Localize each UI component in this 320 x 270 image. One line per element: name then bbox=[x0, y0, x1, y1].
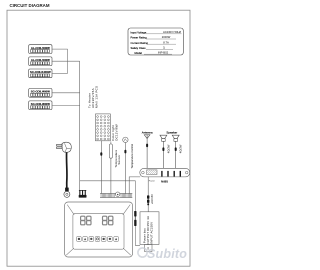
display digits 88 88 bbox=[81, 216, 113, 225]
main AC bus wire bbox=[79, 61, 81, 190]
svg-text:NiΦ5: NiΦ5 bbox=[161, 180, 168, 184]
svg-text:SC-COIL/400W: SC-COIL/400W bbox=[31, 90, 50, 94]
antenna wire bead bbox=[146, 144, 148, 148]
tie bus vertical J1-J3 bbox=[67, 49, 69, 73]
temperature sensor wire bbox=[110, 158, 112, 193]
button icons bbox=[78, 238, 117, 240]
button row bbox=[77, 237, 119, 242]
svg-text:Power: Power bbox=[149, 180, 155, 183]
cord connector plug end bbox=[64, 188, 70, 198]
temperature control wire bead bbox=[124, 150, 126, 154]
buzzer on PCB bbox=[116, 192, 120, 196]
label temperature sensor bbox=[114, 149, 121, 167]
svg-text:Model: Model bbox=[135, 51, 143, 55]
heater connector block J3 bbox=[29, 69, 52, 78]
svg-text:Subito: Subito bbox=[147, 247, 187, 261]
wire J4 to main bus bbox=[52, 92, 80, 94]
label 4ohm 3W SP2 bbox=[179, 144, 183, 153]
svg-text:Temperature Control: Temperature Control bbox=[130, 144, 134, 169]
svg-text:4Ω/3W: 4Ω/3W bbox=[166, 144, 170, 153]
svg-text:Input Voltage: Input Voltage bbox=[131, 30, 147, 34]
label 4ohm 3W SP1 bbox=[166, 144, 170, 153]
power box U2 bbox=[140, 212, 159, 252]
antenna ANT1 bbox=[144, 135, 150, 169]
bezel corner slant BL bbox=[66, 248, 74, 255]
svg-text:SC-COIL/1400W: SC-COIL/1400W bbox=[30, 70, 51, 74]
color light wire bbox=[100, 141, 102, 194]
temperature control ST1 bbox=[123, 137, 128, 142]
svg-text:Power Rating: Power Rating bbox=[131, 36, 148, 40]
bezel corner slant TR bbox=[123, 205, 130, 215]
control panel front face bbox=[73, 214, 124, 250]
heater connector block J1 bbox=[29, 45, 52, 54]
svg-text:DC12V/8W: DC12V/8W bbox=[115, 124, 119, 141]
svg-text:2000W: 2000W bbox=[162, 35, 171, 39]
heater connector block J5 bbox=[29, 101, 52, 110]
wire J3 to tie bus bbox=[52, 72, 68, 74]
svg-text:8.7A: 8.7A bbox=[163, 40, 169, 44]
fuse F1 bbox=[134, 211, 136, 217]
svg-text:MAX 13A PCS: MAX 13A PCS bbox=[94, 86, 98, 108]
speaker SP2 bbox=[172, 135, 179, 168]
svg-text:INP-B02: INP-B02 bbox=[158, 50, 169, 54]
speaker SP2 wire bead bbox=[175, 147, 177, 151]
mains plug P1 bbox=[56, 142, 71, 152]
speaker SP1 wire bead bbox=[162, 147, 164, 151]
svg-text:Speaker: Speaker bbox=[166, 131, 177, 135]
heater connector block J4 bbox=[29, 89, 52, 98]
svg-text:SC-COIL/300W: SC-COIL/300W bbox=[31, 102, 50, 106]
label temperature control bbox=[130, 144, 134, 169]
bezel corner slant TL bbox=[67, 205, 74, 215]
heater connector block J2 bbox=[29, 57, 52, 66]
watermark Subito bbox=[138, 247, 187, 261]
spec table bbox=[128, 28, 183, 55]
wire J1 to tie bus bbox=[52, 48, 68, 50]
svg-text:4Ω/3W: 4Ω/3W bbox=[179, 144, 183, 153]
svg-text:AL-COIL/100W: AL-COIL/100W bbox=[31, 46, 50, 50]
temperature control wire bbox=[124, 143, 126, 194]
color light wire bead bbox=[100, 152, 102, 156]
speaker SP1 bbox=[160, 135, 167, 168]
svg-text:Safety Class: Safety Class bbox=[131, 46, 147, 50]
wire strip to main PCB (L wire) bbox=[129, 177, 140, 194]
diagram frame bbox=[7, 10, 190, 266]
wire J5 to main bus bbox=[52, 105, 80, 107]
temperature sensor RT1 bbox=[109, 142, 112, 159]
AC inlet connector (bus end) bbox=[79, 190, 87, 198]
svg-text:CIRCUIT DIAGRAM: CIRCUIT DIAGRAM bbox=[10, 3, 50, 8]
diode beads on DC wire bbox=[147, 195, 149, 198]
antenna/speaker terminal strip PCB bbox=[140, 168, 190, 177]
label To Heater bbox=[88, 86, 99, 108]
svg-text:AC230V/ 50HZ: AC230V/ 50HZ bbox=[163, 30, 181, 34]
wire J2 to main bus bbox=[52, 60, 80, 62]
label color light bbox=[111, 124, 119, 141]
wire strip to power box bbox=[147, 177, 149, 212]
mains cord bbox=[66, 152, 68, 191]
label +DC15V bbox=[150, 194, 154, 204]
main PCB board bbox=[100, 192, 132, 198]
svg-text:+DC15V: +DC15V bbox=[150, 194, 154, 204]
svg-text:Sensor: Sensor bbox=[117, 155, 121, 165]
bezel corner slant BR bbox=[123, 248, 131, 255]
color light lamp LP1 bbox=[96, 114, 111, 141]
svg-text:INPUT AC230V: INPUT AC230V bbox=[149, 222, 153, 244]
svg-text:AL-COIL/100W: AL-COIL/100W bbox=[31, 58, 50, 62]
branch wire to fuse bbox=[80, 181, 140, 246]
control panel 3D bezel outer bbox=[65, 202, 133, 257]
svg-text:Antenna: Antenna bbox=[142, 131, 153, 135]
svg-text:Current Rating: Current Rating bbox=[131, 41, 149, 45]
